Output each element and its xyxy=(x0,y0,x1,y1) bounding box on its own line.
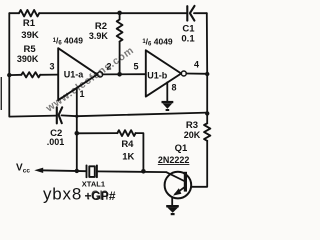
svg-text:390K: 390K xyxy=(17,54,39,64)
svg-text:3: 3 xyxy=(49,61,54,71)
wire node to R4 xyxy=(77,132,118,134)
resistor R2 xyxy=(117,20,123,42)
svg-text:8: 8 xyxy=(171,82,176,92)
wire crystal to transistor xyxy=(97,170,167,173)
svg-text:4: 4 xyxy=(194,59,199,69)
wire U1-a out to U1-b in xyxy=(103,73,146,75)
ground Q1 xyxy=(166,205,179,215)
svg-text:U1-b: U1-b xyxy=(147,71,168,81)
junction node bottom pin1 xyxy=(75,169,79,173)
wire right vertical upper xyxy=(206,13,208,74)
svg-text:.001: .001 xyxy=(47,137,65,147)
inverter bubble U1-b xyxy=(181,71,186,76)
wire R5 input xyxy=(9,74,21,76)
wire right vertical mid xyxy=(206,74,208,124)
transistor Q1 body xyxy=(165,172,192,199)
wire emitter to ground xyxy=(171,198,173,206)
svg-text:1K: 1K xyxy=(122,152,134,163)
svg-text:2N2222: 2N2222 xyxy=(158,155,190,165)
crystal XTAL1 xyxy=(87,165,97,177)
op-amp U1-b triangle xyxy=(146,50,181,96)
svg-text:5: 5 xyxy=(133,61,138,71)
wire R5 to U1-a xyxy=(40,74,58,76)
resistor R5 xyxy=(21,72,40,77)
capacitor C2 xyxy=(57,107,62,123)
junction node feedback right xyxy=(205,111,209,115)
wire U1-b out xyxy=(186,73,207,75)
wire feedback horizontal xyxy=(77,113,207,117)
junction node C2 pin1 xyxy=(75,115,78,118)
svg-text:Q1: Q1 xyxy=(175,143,188,154)
svg-text:R4: R4 xyxy=(121,139,134,150)
svg-text:1: 1 xyxy=(79,89,84,99)
transistor Q1 base lead xyxy=(167,172,185,181)
svg-text:3.9K: 3.9K xyxy=(89,31,109,41)
wire R4 right down xyxy=(136,133,144,171)
svg-text:+GP#: +GP# xyxy=(85,189,116,203)
resistor R4 xyxy=(117,130,135,136)
svg-text:2: 2 xyxy=(106,61,111,71)
svg-text:ybx8: ybx8 xyxy=(43,185,82,204)
Vcc arrow xyxy=(34,168,43,173)
wire left vertical xyxy=(9,13,56,116)
transistor Q1 emitter lead xyxy=(175,187,185,194)
wire top middle xyxy=(39,12,187,14)
transistor Q1 base bar xyxy=(184,172,187,192)
wire pin 8 xyxy=(166,82,168,101)
resistor R1 xyxy=(19,10,39,16)
capacitor C1 xyxy=(187,6,194,21)
svg-text:R1: R1 xyxy=(23,18,36,29)
svg-text:1/6 4049: 1/6 4049 xyxy=(53,35,84,46)
inverter bubble U1-a xyxy=(98,72,103,77)
junction node R2 bottom xyxy=(117,72,122,77)
wire C2 to node xyxy=(62,114,77,117)
svg-text:1/6 4049: 1/6 4049 xyxy=(142,37,173,48)
junction node left xyxy=(7,73,11,77)
svg-text:39K: 39K xyxy=(21,30,39,41)
wire right vertical lower xyxy=(191,141,207,187)
wire top left xyxy=(9,12,19,14)
junction node R2 top xyxy=(117,11,122,16)
wire Vcc line xyxy=(41,169,87,172)
wire pin1 vertical xyxy=(76,88,78,171)
resistor R3 xyxy=(204,123,210,141)
op-amp U1-a triangle xyxy=(58,48,97,100)
svg-text:20K: 20K xyxy=(184,130,201,140)
junction node base xyxy=(141,169,146,174)
wire R2 top stub xyxy=(119,13,121,19)
transistor Q1 emitter arrow xyxy=(173,188,181,195)
wire R2 bottom stub xyxy=(119,42,121,75)
svg-text:0.1: 0.1 xyxy=(181,33,195,44)
svg-text:U1-a: U1-a xyxy=(64,70,85,80)
paper background xyxy=(0,0,224,223)
wire top right xyxy=(194,12,207,14)
scan edge artifact xyxy=(1,77,2,110)
junction node R4 left xyxy=(75,131,80,136)
ground U1-b xyxy=(162,101,174,111)
junction node U1-b output xyxy=(205,72,209,76)
